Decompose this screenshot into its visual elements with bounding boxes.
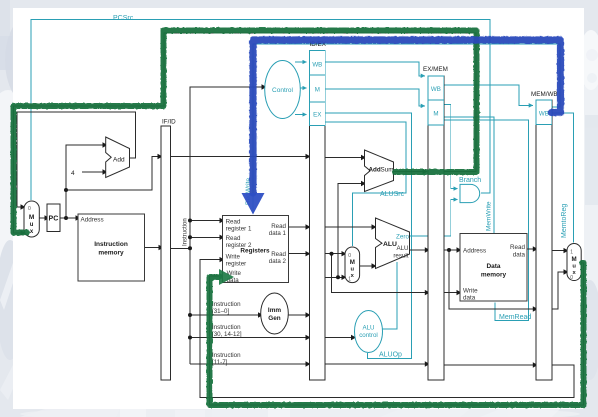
wire Control to ID/EX EX <box>295 114 307 116</box>
svg-text:PCSrc: PCSrc <box>113 15 134 22</box>
arrow into wb mux 0 <box>564 269 569 274</box>
svg-text:EX/MEM: EX/MEM <box>423 66 448 73</box>
svg-text:data 1: data 1 <box>269 230 287 237</box>
arrow branch target into EX/MEM <box>423 169 428 174</box>
svg-text:Read: Read <box>226 219 241 226</box>
svg-text:Instruction: Instruction <box>212 324 241 331</box>
svg-text:Add: Add <box>369 167 381 174</box>
arrow into write data <box>220 273 225 278</box>
svg-text:Add: Add <box>113 157 125 164</box>
arrow into PC mux input 0 <box>21 204 26 209</box>
wire instruction bus out of IF/ID <box>171 247 190 249</box>
svg-text:u: u <box>351 267 355 273</box>
svg-text:M: M <box>315 87 320 94</box>
svg-text:0: 0 <box>570 275 573 281</box>
svg-text:0: 0 <box>28 206 31 212</box>
wire WB: EX/MEM to MEM/WB <box>444 85 533 105</box>
arrow into Add Sum top <box>361 155 366 160</box>
svg-text:Instruction: Instruction <box>94 241 128 248</box>
arrow into read register 2 <box>220 235 225 240</box>
pipeline register ID/EX <box>310 50 326 380</box>
wire instruction memory to IF/ID <box>145 247 159 249</box>
wire ID/EX read data 1 to ALU <box>325 226 371 228</box>
wire PC to instruction memory <box>60 217 76 219</box>
svg-text:Registers: Registers <box>240 248 270 255</box>
wire ALU result from EX/MEM to data memory address and MEM/WB <box>444 249 457 251</box>
arrow into data memory address <box>457 247 462 252</box>
wire instruction[31-0] to Imm Gen <box>190 314 258 316</box>
wire instruction to read register 1 <box>190 220 220 222</box>
svg-text:Read: Read <box>271 251 286 258</box>
arrow into IF/ID instruction <box>159 245 164 250</box>
svg-text:[30, 14-12]: [30, 14-12] <box>212 331 242 338</box>
arrow funct into ID/EX <box>306 335 311 340</box>
svg-text:4: 4 <box>71 170 75 177</box>
svg-text:1: 1 <box>348 277 351 283</box>
wire rd MEM/WB around bottom to write register <box>200 260 574 398</box>
svg-text:u: u <box>30 222 34 228</box>
svg-text:memory: memory <box>481 272 507 279</box>
wire read data 1 to ID/EX <box>288 226 305 228</box>
adder Add (PC+4) <box>106 137 130 178</box>
blue arrowhead into registers <box>242 193 265 215</box>
svg-text:Read: Read <box>226 235 241 242</box>
svg-text:IF/ID: IF/ID <box>162 119 176 126</box>
wire Imm Gen to ID/EX <box>288 314 305 316</box>
node ALU result tee <box>447 248 451 252</box>
svg-text:control: control <box>359 332 378 339</box>
mux MemtoReg (write-back) <box>567 244 581 281</box>
svg-text:MemWrite: MemWrite <box>486 201 493 231</box>
wire ID/EX funct to ALU control <box>325 337 351 339</box>
wire ALU result to EX/MEM <box>410 249 425 251</box>
arrow into Imm Gen <box>258 312 263 317</box>
wire ALUSrc: ID/EX EX box to ALU mux select <box>325 122 406 246</box>
wire instruction[30,14-12] to ID/EX <box>190 337 306 339</box>
arrow into PC mux input 1 <box>21 230 26 235</box>
node instr imm <box>188 313 192 317</box>
arrow into read register 1 <box>220 218 225 223</box>
wire mux to PC <box>39 217 44 219</box>
node instr funct <box>188 336 192 340</box>
arrow into Control <box>262 84 267 89</box>
svg-text:ALU: ALU <box>362 325 374 332</box>
svg-text:WB: WB <box>312 62 322 69</box>
registers block <box>223 215 289 282</box>
arrow into write register <box>220 257 225 262</box>
wire PC riser to Add <box>66 145 103 218</box>
svg-text:MEM/WB: MEM/WB <box>531 91 558 98</box>
svg-text:Address: Address <box>463 248 486 255</box>
arrow read data 2 into ID/EX <box>306 251 311 256</box>
ALU control oval <box>355 311 383 353</box>
wire PC to IF/ID <box>66 157 158 191</box>
node PC out <box>64 216 68 220</box>
arrow write data into EX/MEM <box>425 290 430 295</box>
green highlight: write-back data path <box>210 263 584 405</box>
arrow read data 1 into ID/EX <box>306 224 311 229</box>
wire IF/ID PC to ID/EX <box>171 156 306 158</box>
pipeline register IF/ID <box>161 126 171 380</box>
svg-text:Control: Control <box>272 87 294 94</box>
wire ID/EX read data 2 to ALUSrc mux and down to EX/MEM <box>325 254 425 293</box>
register PC <box>47 204 60 232</box>
wire ID/EX rd to EX/MEM <box>325 363 425 365</box>
arrow into IF/ID PC <box>158 154 163 159</box>
wire read data 2 to ID/EX <box>288 253 305 255</box>
svg-text:Write: Write <box>226 254 241 261</box>
svg-text:Read: Read <box>271 223 286 230</box>
svg-text:WB: WB <box>539 111 549 118</box>
svg-text:Branch: Branch <box>459 177 481 184</box>
svg-text:Write: Write <box>463 288 478 295</box>
svg-text:result: result <box>393 253 408 260</box>
wire MemWrite: EX/MEM M box to data memory <box>444 117 494 233</box>
svg-text:ALU: ALU <box>383 241 397 248</box>
arrow read data into MEM/WB <box>533 246 538 251</box>
AND gate Branch <box>460 184 480 202</box>
arrow into ALUSrc mux 1 <box>342 275 347 280</box>
svg-text:Read: Read <box>510 244 526 251</box>
arrow into ALUSrc mux 0 <box>342 251 347 256</box>
node PC+IFID tee <box>64 188 68 192</box>
wire write data from EX/MEM to data memory <box>444 292 457 294</box>
wire Control to ID/EX WB <box>295 61 307 63</box>
wire instruction[11-7] to ID/EX <box>190 363 306 365</box>
svg-text:Gen: Gen <box>268 315 281 322</box>
svg-text:memory: memory <box>98 250 124 257</box>
arrow into data memory write data <box>457 290 462 295</box>
ALU <box>376 218 410 269</box>
junction dots <box>64 188 451 340</box>
svg-text:WB: WB <box>431 86 441 93</box>
svg-text:Zero: Zero <box>396 234 409 241</box>
arrow mux out into ALU <box>372 263 377 268</box>
svg-text:u: u <box>572 264 576 270</box>
svg-text:PC: PC <box>49 216 59 223</box>
wire 4 to Add <box>82 171 103 173</box>
wire branch target: Add Sum through EX/MEM around to PC mux input 1 (under green marker) <box>394 171 423 173</box>
ID/EX WB box <box>310 50 326 75</box>
MEM/WB WB box <box>536 100 552 125</box>
instruction memory <box>78 214 145 281</box>
wire read data to MEM/WB <box>527 248 533 250</box>
arrowheads black <box>21 84 569 367</box>
wire Zero: ALU to AND gate <box>410 200 458 237</box>
arrow into instruction memory address <box>76 215 81 220</box>
adder Add Sum (branch target) <box>365 150 394 192</box>
mux ALUSrc <box>345 247 360 283</box>
svg-text:MemRead: MemRead <box>499 314 531 321</box>
node instr read reg 2 <box>188 235 192 239</box>
wire immediate to mux and riser to Add Sum <box>325 276 341 278</box>
wire WB: ID/EX to EX/MEM <box>325 62 425 76</box>
svg-text:Instruction: Instruction <box>183 218 189 246</box>
wire RegWrite: MEM/WB WB box to Registers (under blue marker) <box>253 44 560 214</box>
svg-text:ALUSrc: ALUSrc <box>380 191 405 198</box>
svg-text:Imm: Imm <box>268 307 281 314</box>
arrow PC into ID/EX <box>306 154 311 159</box>
arrow rd into MEM/WB <box>533 362 538 367</box>
svg-text:ALU: ALU <box>396 245 408 252</box>
arrow rd into EX/MEM <box>425 361 430 366</box>
node instr read reg 1 <box>188 219 192 223</box>
arrow into Add top <box>103 142 108 147</box>
node immediate tee <box>336 275 340 279</box>
svg-text:[11-7]: [11-7] <box>212 359 228 366</box>
svg-text:data: data <box>463 295 476 302</box>
wire MemtoReg: MEM/WB WB box to write-back mux select <box>552 113 574 243</box>
svg-text:M: M <box>572 256 577 263</box>
svg-text:Address: Address <box>81 217 104 224</box>
svg-text:1: 1 <box>570 250 573 256</box>
mux PCSrc (left) <box>24 201 39 237</box>
svg-text:[31–0]: [31–0] <box>212 308 229 315</box>
wire read data MEM/WB to wb mux input 1 <box>552 250 564 252</box>
wire PC+4: Add output around to PC mux input 0 <box>17 112 136 207</box>
wire PCSrc: AND gate output to PC mux select <box>31 20 490 200</box>
svg-text:M: M <box>433 111 438 118</box>
arrow into PC <box>45 215 50 220</box>
node read data 2 tee <box>330 252 334 256</box>
ID/EX EX box <box>310 102 326 125</box>
arrow rd into ID/EX <box>306 361 311 366</box>
wire MemRead: EX/MEM M box to data memory bottom <box>444 120 529 321</box>
EX/MEM WB box <box>428 76 444 100</box>
arrow into ALU control <box>351 335 356 340</box>
svg-text:ALUOp: ALUOp <box>379 352 402 359</box>
pipeline register EX/MEM <box>428 76 444 380</box>
wire rd EX/MEM to MEM/WB <box>444 364 533 366</box>
wire ALUSrc mux output to ALU <box>360 265 372 267</box>
wire M: ID/EX to EX/MEM <box>325 89 425 106</box>
node instr main <box>188 246 192 250</box>
ID/EX M box <box>310 75 326 102</box>
wire ALU result MEM/WB to wb mux input 0 <box>552 272 564 309</box>
data memory <box>460 234 527 301</box>
green arrowhead into write data <box>219 269 234 285</box>
wire write-back mux output around bottom to write data (under green marker) <box>210 263 584 405</box>
EX/MEM M box <box>428 100 444 125</box>
svg-text:EX: EX <box>313 112 321 119</box>
wire Control to ID/EX M <box>300 87 307 89</box>
arrow ALU result into EX/MEM <box>425 247 430 252</box>
arrow into wb mux 1 <box>564 248 569 253</box>
svg-text:register: register <box>226 261 247 268</box>
svg-text:M: M <box>29 214 34 221</box>
arrow Imm Gen into ID/EX <box>306 312 311 317</box>
svg-text:Instruction: Instruction <box>212 352 241 359</box>
wire ID/EX PC to Add Sum <box>325 157 361 159</box>
wire instruction bus riser <box>190 87 262 364</box>
svg-text:data 2: data 2 <box>269 258 287 265</box>
arrow into Add Sum bottom <box>361 181 366 186</box>
svg-text:Instruction: Instruction <box>212 301 241 308</box>
pipeline register MEM/WB <box>536 100 552 380</box>
arrow into ALU top <box>372 224 377 229</box>
svg-text:register 1: register 1 <box>226 226 252 233</box>
green highlight: branch target path <box>14 31 477 233</box>
wire ALU control output to ALU <box>382 262 397 329</box>
svg-text:Sum: Sum <box>381 167 394 174</box>
blue highlight: RegWrite path <box>253 40 561 193</box>
control unit oval <box>265 61 301 119</box>
wire ALUOp: ID/EX EX box to ALU control <box>325 113 411 359</box>
wire Branch: EX/MEM M box to AND gate <box>444 105 458 189</box>
imm gen <box>261 293 289 334</box>
svg-text:MemtoReg: MemtoReg <box>561 204 568 238</box>
wire instruction to read register 2 <box>190 236 220 238</box>
svg-text:Data: Data <box>486 263 500 270</box>
arrow into Add bottom <box>103 169 108 174</box>
arrow ALU result into MEM/WB <box>533 306 538 311</box>
svg-text:M: M <box>350 259 355 266</box>
svg-text:data: data <box>513 252 526 259</box>
